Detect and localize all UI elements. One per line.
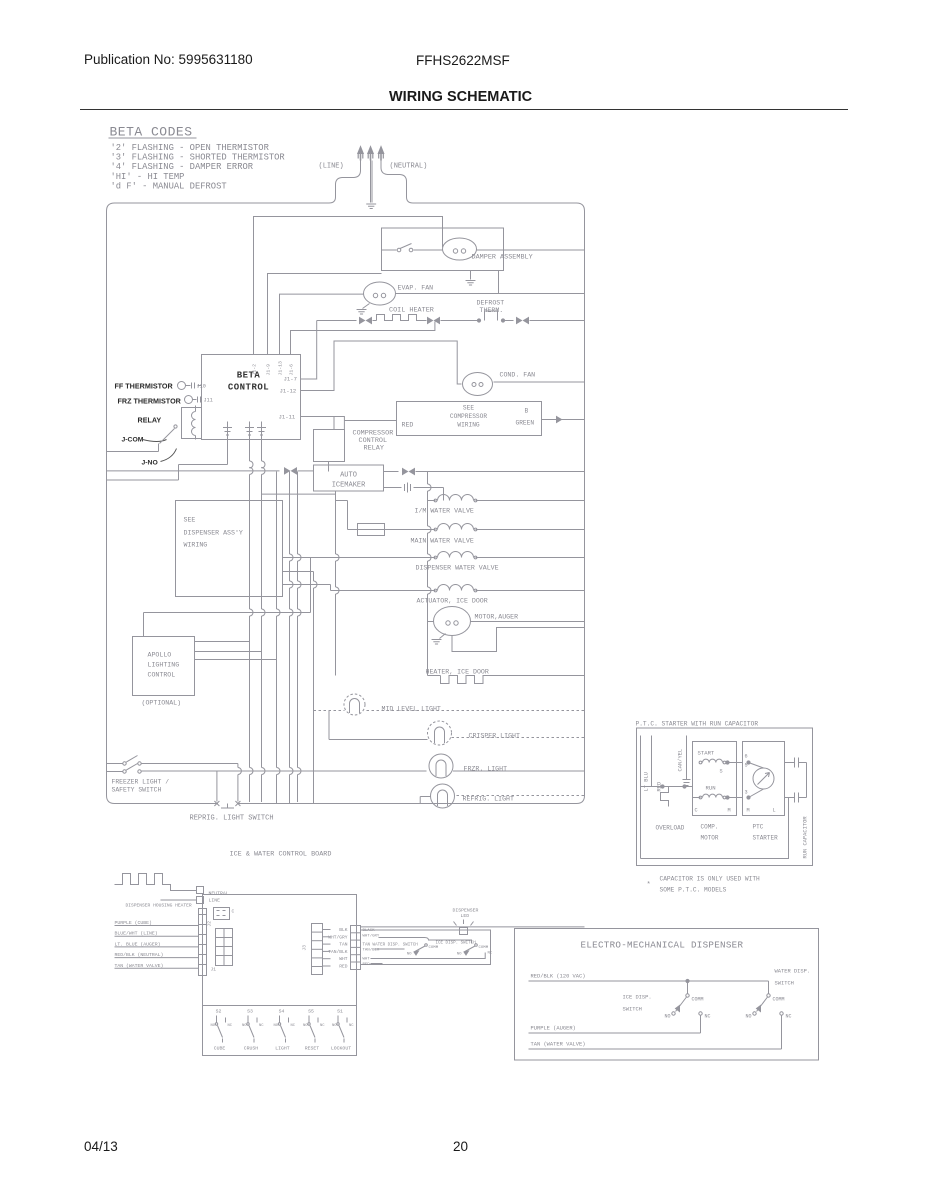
svg-text:DISPENSER: DISPENSER (453, 908, 479, 914)
svg-text:RUN: RUN (706, 785, 716, 792)
svg-text:CAN/YEL: CAN/YEL (678, 749, 684, 772)
svg-text:SEE: SEE (184, 517, 196, 524)
svg-text:NO: NO (332, 1024, 337, 1028)
svg-text:WATER DISP.: WATER DISP. (775, 969, 811, 975)
svg-text:REFRIG. LIGHT: REFRIG. LIGHT (463, 796, 514, 803)
svg-text:ELECTRO-MECHANICAL DISPENSER: ELECTRO-MECHANICAL DISPENSER (581, 940, 744, 951)
svg-text:SEE: SEE (463, 405, 474, 412)
svg-text:WHT: WHT (339, 956, 348, 962)
svg-text:ICE & WATER CONTROL BOARD: ICE & WATER CONTROL BOARD (230, 851, 332, 859)
svg-text:DISPENSER WATER VALVE: DISPENSER WATER VALVE (416, 565, 499, 572)
svg-text:COIL HEATER: COIL HEATER (389, 307, 434, 315)
svg-text:NO: NO (303, 1024, 308, 1028)
svg-text:'HI' - HI TEMP: 'HI' - HI TEMP (111, 172, 185, 182)
svg-text:NC: NC (259, 1024, 264, 1028)
svg-text:PURPLE (AUGER): PURPLE (AUGER) (531, 1026, 576, 1032)
svg-text:GREEN: GREEN (516, 420, 535, 427)
svg-text:CRISPER LIGHT: CRISPER LIGHT (469, 733, 520, 740)
svg-text:RESET: RESET (305, 1046, 320, 1052)
svg-text:DAMPER ASSEMBLY: DAMPER ASSEMBLY (472, 254, 533, 262)
svg-text:J1-11: J1-11 (279, 414, 296, 421)
svg-text:NC: NC (349, 1024, 354, 1028)
svg-text:M: M (747, 808, 750, 814)
svg-text:DEFROST: DEFROST (477, 300, 505, 307)
svg-text:'4' FLASHING - DAMPER ERROR: '4' FLASHING - DAMPER ERROR (111, 162, 254, 172)
svg-text:3: 3 (745, 790, 748, 796)
svg-text:FREEZER LIGHT /: FREEZER LIGHT / (112, 779, 170, 786)
svg-text:OVERLOAD: OVERLOAD (656, 825, 685, 832)
svg-text:COMPRESSOR: COMPRESSOR (450, 413, 487, 420)
svg-text:S: S (720, 769, 723, 775)
svg-text:J10: J10 (197, 384, 206, 390)
svg-text:COMM: COMM (479, 946, 489, 950)
svg-text:WHT: WHT (363, 958, 371, 962)
svg-text:S3: S3 (247, 1009, 253, 1015)
svg-text:NO: NO (745, 1014, 751, 1020)
svg-text:MOTOR: MOTOR (701, 835, 719, 842)
svg-text:BLK: BLK (339, 927, 348, 933)
svg-text:(NEUTRAL): (NEUTRAL) (390, 163, 428, 171)
svg-text:HEATER, ICE DOOR: HEATER, ICE DOOR (426, 669, 489, 676)
svg-text:WHT/GRY: WHT/GRY (363, 934, 380, 939)
svg-text:WHT/GRY: WHT/GRY (328, 934, 348, 940)
svg-text:RELAY: RELAY (364, 445, 384, 453)
svg-text:REPRIG. LIGHT SWITCH: REPRIG. LIGHT SWITCH (190, 815, 274, 823)
svg-text:LIGHT: LIGHT (275, 1046, 290, 1052)
svg-text:M: M (728, 808, 731, 814)
svg-text:6: 6 (745, 754, 748, 760)
svg-text:RED: RED (339, 964, 348, 970)
svg-text:J1-13: J1-13 (278, 361, 284, 376)
svg-text:NO: NO (273, 1024, 278, 1028)
svg-text:(OPTIONAL): (OPTIONAL) (142, 700, 182, 707)
svg-text:J11: J11 (204, 398, 213, 404)
svg-text:FRZ THERMISTOR: FRZ THERMISTOR (118, 397, 182, 406)
svg-text:NO: NO (210, 1024, 215, 1028)
svg-text:L: L (773, 808, 776, 814)
svg-text:RUN CAPACITOR: RUN CAPACITOR (803, 816, 809, 859)
svg-text:STARTER: STARTER (753, 835, 779, 842)
svg-text:J-NO: J-NO (142, 460, 158, 467)
svg-text:LOCKOUT: LOCKOUT (331, 1046, 351, 1052)
svg-text:TAN/BLK: TAN/BLK (328, 949, 348, 955)
svg-text:NO: NO (242, 1024, 247, 1028)
svg-text:WIRING: WIRING (184, 542, 208, 549)
svg-text:NC: NC (320, 1024, 325, 1028)
svg-text:J1-12: J1-12 (280, 388, 297, 395)
svg-text:CUBE: CUBE (214, 1046, 226, 1052)
svg-text:AUTO: AUTO (340, 472, 357, 480)
svg-text:MID LEVEL LIGHT: MID LEVEL LIGHT (382, 706, 441, 713)
svg-text:SWITCH: SWITCH (623, 1007, 642, 1013)
svg-text:*: * (647, 882, 651, 890)
svg-text:FF THERMISTOR: FF THERMISTOR (115, 382, 174, 391)
svg-text:C: C (695, 808, 698, 814)
svg-text:TAN (WATER VALVE): TAN (WATER VALVE) (531, 1042, 586, 1048)
svg-text:EVAP. FAN: EVAP. FAN (398, 285, 434, 292)
svg-text:'2' FLASHING - OPEN THERMISTOR: '2' FLASHING - OPEN THERMISTOR (111, 143, 270, 153)
svg-text:RED/BLK (120 VAC): RED/BLK (120 VAC) (531, 974, 586, 980)
svg-text:NC: NC (786, 1014, 792, 1020)
svg-text:J1-7: J1-7 (284, 376, 297, 383)
svg-text:NO: NO (457, 953, 462, 957)
svg-text:NEUTRAL: NEUTRAL (209, 891, 229, 897)
svg-text:LED: LED (461, 913, 470, 919)
svg-text:PTC: PTC (753, 824, 764, 831)
svg-text:J1-6: J1-6 (289, 364, 295, 376)
svg-text:C: C (232, 909, 235, 915)
svg-text:LIGHTING: LIGHTING (148, 662, 180, 669)
svg-text:B: B (525, 408, 529, 415)
svg-text:ICE DISP. SWITCH: ICE DISP. SWITCH (436, 942, 477, 946)
svg-text:CAPACITOR IS ONLY USED WITH: CAPACITOR IS ONLY USED WITH (660, 876, 761, 883)
svg-text:CONTROL: CONTROL (148, 672, 176, 679)
svg-text:I/M WATER VALVE: I/M WATER VALVE (415, 508, 474, 515)
svg-text:BLACK: BLACK (363, 929, 376, 933)
svg-text:RED: RED (363, 963, 371, 967)
svg-text:NO: NO (407, 953, 412, 957)
svg-text:DISPENSER HOUSING HEATER: DISPENSER HOUSING HEATER (126, 903, 192, 909)
svg-text:WIRING: WIRING (457, 422, 480, 429)
svg-text:APOLLO: APOLLO (148, 652, 172, 659)
svg-text:SAFETY SWITCH: SAFETY SWITCH (112, 787, 162, 794)
svg-text:J3: J3 (302, 945, 308, 951)
svg-text:MAIN WATER VALVE: MAIN WATER VALVE (411, 538, 474, 545)
svg-text:COND. FAN: COND. FAN (500, 372, 536, 379)
svg-text:ICEMAKER: ICEMAKER (332, 482, 366, 490)
svg-text:TAN WATER DISP. SWITCH: TAN WATER DISP. SWITCH (363, 944, 419, 948)
svg-text:COMP.: COMP. (701, 824, 719, 831)
svg-text:S4: S4 (279, 1009, 285, 1015)
svg-text:MOTOR,AUGER: MOTOR,AUGER (475, 614, 519, 621)
svg-text:'d F' - MANUAL DEFROST: 'd F' - MANUAL DEFROST (111, 181, 227, 191)
svg-text:COMM: COMM (773, 997, 785, 1003)
svg-text:J-COM: J-COM (122, 437, 144, 444)
svg-text:COMM: COMM (692, 997, 704, 1003)
svg-text:SWITCH: SWITCH (775, 981, 794, 987)
svg-text:NC: NC (291, 1024, 296, 1028)
svg-text:ACTUATOR, ICE DOOR: ACTUATOR, ICE DOOR (417, 598, 488, 605)
svg-text:SOME P.T.C. MODELS: SOME P.T.C. MODELS (660, 887, 727, 894)
svg-text:(LINE): (LINE) (319, 163, 344, 171)
svg-text:NC: NC (228, 1024, 233, 1028)
svg-text:BETA CODES: BETA CODES (110, 125, 193, 140)
svg-text:S5: S5 (308, 1009, 314, 1015)
svg-text:CRUSH: CRUSH (244, 1046, 259, 1052)
svg-text:COMM: COMM (429, 946, 439, 950)
svg-text:J1-2: J1-2 (252, 364, 258, 376)
svg-text:DISPENSER ASS'Y: DISPENSER ASS'Y (184, 530, 243, 537)
svg-text:ICE DISP.: ICE DISP. (623, 995, 652, 1001)
svg-text:TAN/BLK: TAN/BLK (363, 948, 380, 953)
svg-text:J1: J1 (211, 967, 217, 973)
svg-text:TAN: TAN (339, 942, 348, 948)
svg-text:CONTROL: CONTROL (228, 383, 269, 393)
svg-text:S2: S2 (216, 1009, 222, 1015)
svg-text:RED: RED (402, 422, 414, 429)
svg-text:NC: NC (705, 1014, 711, 1020)
svg-text:J2: J2 (207, 921, 213, 927)
svg-text:NO: NO (664, 1014, 670, 1020)
svg-text:P.T.C. STARTER WITH RUN CAPACI: P.T.C. STARTER WITH RUN CAPACITOR (636, 721, 759, 728)
svg-text:RELAY: RELAY (138, 416, 162, 425)
svg-text:NC: NC (488, 952, 493, 956)
svg-text:S1: S1 (337, 1009, 343, 1015)
svg-text:'3' FLASHING - SHORTED THERMIS: '3' FLASHING - SHORTED THERMISTOR (111, 153, 286, 163)
svg-text:J1-9: J1-9 (266, 364, 272, 376)
svg-text:LINE: LINE (209, 898, 221, 904)
svg-text:LT BLU: LT BLU (644, 772, 650, 791)
svg-text:START: START (698, 750, 715, 757)
